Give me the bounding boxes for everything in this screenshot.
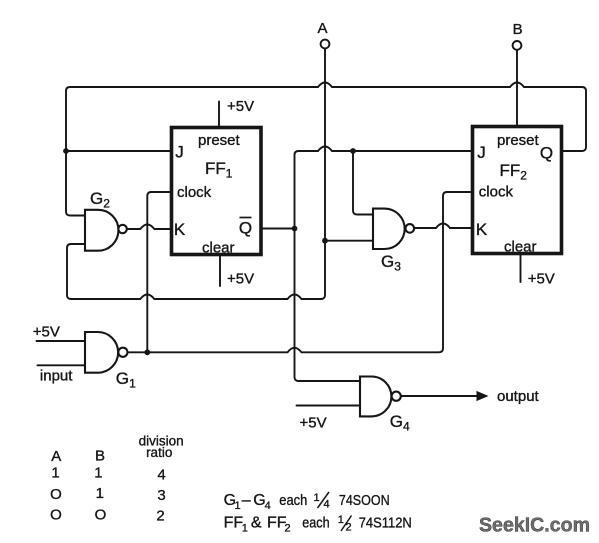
svg-text:ratio: ratio — [146, 445, 172, 460]
wire G2 output to FF1.K — [127, 225, 172, 230]
svg-text:J: J — [477, 143, 486, 162]
svg-text:+5V: +5V — [33, 324, 60, 341]
svg-text:O: O — [95, 507, 107, 524]
svg-text:3: 3 — [157, 487, 165, 504]
svg-text:clear: clear — [202, 239, 235, 256]
svg-text:+5V: +5V — [227, 270, 254, 287]
svg-text:K: K — [174, 220, 186, 239]
svg-text:1: 1 — [314, 492, 320, 504]
svg-text:1: 1 — [226, 167, 233, 181]
svg-text:+5V: +5V — [528, 270, 555, 287]
wire G3 input 1 — [353, 151, 373, 215]
svg-text:A: A — [51, 448, 61, 465]
wire Qbar up to FF2.J bus — [295, 147, 473, 229]
wire G2 input 2 down and right to node A bottom — [67, 244, 322, 299]
svg-text:output: output — [497, 388, 540, 405]
svg-text:clock: clock — [479, 184, 514, 201]
node A terminal circle — [321, 40, 330, 49]
svg-text:+5V: +5V — [227, 98, 254, 115]
wire J bus to FF1.J — [66, 150, 172, 152]
svg-text:2: 2 — [156, 507, 164, 524]
junction G1 output clock node — [144, 349, 150, 355]
junction FF2 J bus to G3 input 1 — [350, 148, 356, 154]
wire node B vertical to FF2 preset — [516, 50, 518, 127]
svg-text:clock: clock — [177, 184, 212, 201]
svg-text:4: 4 — [157, 466, 165, 483]
svg-text:B: B — [513, 21, 523, 38]
output arrowhead — [477, 391, 489, 401]
svg-text:J: J — [175, 143, 184, 162]
svg-text:1: 1 — [94, 464, 102, 481]
svg-text:&: & — [251, 515, 262, 532]
svg-text:each: each — [302, 515, 329, 532]
svg-text:1: 1 — [96, 485, 104, 502]
wire G3 output to FF2.K — [414, 224, 472, 229]
wire clock node right and up to FF2 clock — [147, 192, 472, 352]
svg-text:B: B — [95, 447, 105, 464]
svg-text:G: G — [116, 369, 129, 388]
svg-text:2: 2 — [520, 169, 527, 183]
svg-text:2: 2 — [285, 523, 291, 535]
svg-text:G: G — [390, 412, 403, 431]
wire FF1 clear +5V stub — [219, 255, 221, 286]
wire G4 input 2 +5V lead — [297, 405, 361, 407]
svg-text:G: G — [381, 252, 394, 271]
nand gate G3 — [373, 209, 414, 249]
svg-text:2: 2 — [346, 522, 352, 534]
flip-flop FF2 box — [473, 127, 562, 254]
svg-text:1: 1 — [51, 464, 59, 481]
nand gate G1 — [85, 332, 128, 373]
svg-text:74SOON: 74SOON — [339, 492, 390, 509]
svg-text:SeekIC.com: SeekIC.com — [479, 514, 590, 537]
svg-text:1: 1 — [129, 377, 136, 391]
wire G4 output to arrow — [401, 395, 478, 397]
junction A line to G3 input 2 — [322, 238, 328, 244]
wire Qbar down to G4 input 1 — [295, 229, 361, 382]
svg-text:A: A — [317, 20, 327, 37]
svg-text:FF: FF — [224, 515, 244, 532]
svg-text:clear: clear — [504, 239, 537, 256]
svg-text:K: K — [476, 220, 488, 239]
wire clock node up to FF1 clock — [147, 192, 171, 352]
nand gate G2 — [85, 210, 127, 251]
junction Qbar node — [292, 226, 298, 232]
wire G1 output stub — [128, 351, 148, 353]
svg-text:2: 2 — [103, 197, 110, 211]
svg-text:4: 4 — [265, 500, 271, 512]
wire FF2 clear +5V stub — [520, 254, 522, 283]
svg-text:+5V: +5V — [300, 414, 327, 431]
wire FF1 Qbar stub — [261, 228, 295, 230]
nand gate G4 — [360, 377, 401, 417]
svg-text:input: input — [40, 368, 73, 385]
wire G1 input 2 input lead — [38, 364, 86, 366]
svg-text:G: G — [90, 189, 103, 208]
svg-text:4: 4 — [324, 499, 330, 511]
svg-text:74S112N: 74S112N — [359, 515, 412, 532]
svg-text:1: 1 — [242, 523, 248, 535]
svg-text:Q: Q — [540, 144, 553, 163]
svg-text:1: 1 — [338, 514, 344, 526]
wire FF2.Q feedback via top rail to left drop and G2 input 1 — [66, 83, 586, 216]
junction left J node — [63, 148, 69, 154]
svg-text:preset: preset — [497, 132, 540, 149]
svg-text:–: – — [242, 492, 251, 509]
node B terminal circle — [513, 41, 522, 50]
svg-text:4: 4 — [403, 419, 410, 433]
svg-text:O: O — [50, 507, 62, 524]
wire FF1 preset +5V stub — [218, 102, 220, 128]
wire node A vertical line — [321, 49, 325, 299]
svg-text:each: each — [279, 492, 307, 509]
svg-text:1: 1 — [235, 500, 241, 512]
flip-flop FF1 box — [172, 128, 262, 255]
svg-text:O: O — [50, 486, 62, 503]
svg-text:FF: FF — [205, 159, 226, 178]
svg-text:preset: preset — [198, 132, 241, 149]
svg-text:3: 3 — [394, 260, 401, 274]
svg-text:Q: Q — [239, 219, 252, 238]
wire G1 input 1 +5V lead — [37, 340, 86, 342]
wire G3 input 2 — [325, 240, 373, 242]
svg-text:FF: FF — [500, 161, 521, 180]
